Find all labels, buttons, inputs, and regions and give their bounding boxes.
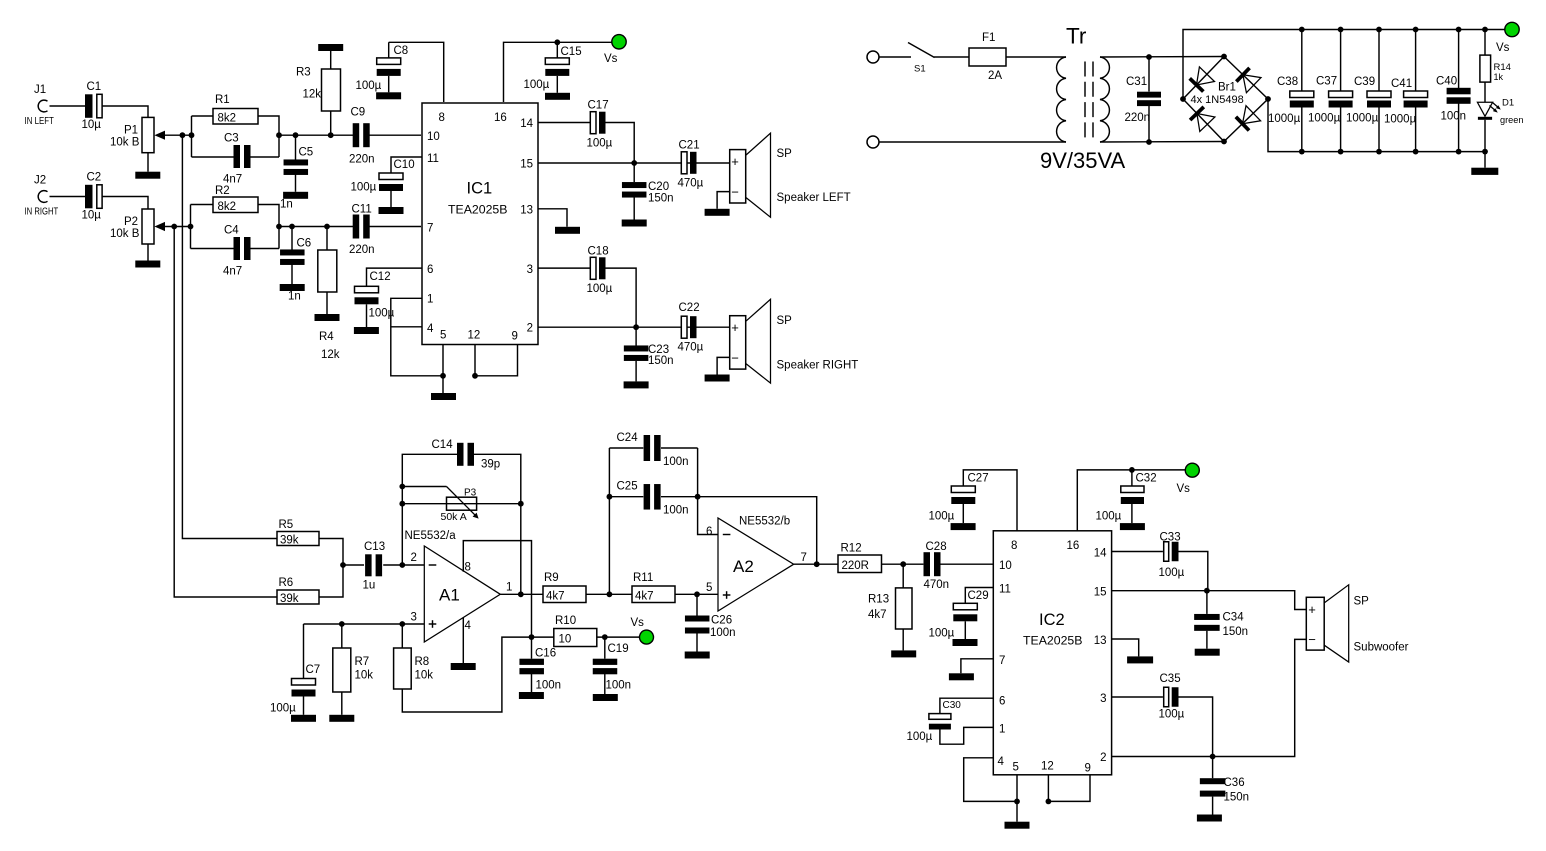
svg-text:6: 6 (706, 526, 712, 538)
ground (pin 13) (1127, 656, 1153, 663)
resistor R14 1k (1480, 55, 1511, 82)
op-amp IC1 TEA2025B (422, 103, 538, 345)
LED D1 green (1477, 98, 1523, 126)
wire (C30 to IC2 pin 1) (940, 727, 993, 744)
svg-text:100n: 100n (663, 456, 689, 468)
ground (IC2) (1005, 822, 1030, 829)
switch S1 (908, 43, 935, 75)
capacitor C24 100n (617, 432, 689, 468)
wire (402, 503, 446, 505)
wire (A1 pin2 to C14) (402, 454, 457, 565)
svg-text:9: 9 (512, 331, 518, 343)
node Vs (supply) (604, 35, 626, 65)
svg-text:100µ: 100µ (356, 80, 382, 92)
wire (A1 pin 8 supply) (463, 541, 531, 638)
connector J1 (input left) (25, 84, 55, 126)
wire (303, 697, 305, 715)
fuse F1 2A (969, 32, 1006, 82)
svg-text:C9: C9 (351, 107, 366, 119)
svg-text:−: − (1308, 632, 1316, 647)
resistor R1 8k2 (213, 94, 258, 124)
wire (secondary top) (1100, 56, 1224, 59)
wire (to R13) (902, 564, 904, 588)
svg-text:R7: R7 (355, 656, 370, 668)
junction (472, 373, 478, 379)
wire (A1 pin 3 bias) (304, 623, 425, 625)
wire (191, 204, 214, 206)
capacitor C4 4n7 (223, 225, 251, 278)
wire (1131, 470, 1133, 486)
svg-text:green: green (1500, 115, 1524, 125)
wire (IC2 pin 11 to C29) (965, 588, 993, 604)
capacitor C31 220n (1125, 76, 1162, 124)
svg-text:220n: 220n (1125, 112, 1151, 124)
wire (IC2 pin 4 to ground rail) (964, 758, 1017, 802)
wire (531, 637, 533, 659)
wire (258, 205, 279, 249)
capacitor C38 1000µ (1268, 76, 1314, 125)
wire (102, 197, 148, 210)
wire (556, 76, 558, 93)
wire (532, 636, 554, 638)
ground (C10) (379, 207, 404, 214)
svg-text:C20: C20 (648, 181, 669, 193)
svg-text:C21: C21 (679, 140, 700, 152)
svg-text:C29: C29 (968, 590, 989, 602)
resistor R12 220R (838, 543, 882, 573)
wire (1148, 57, 1150, 92)
capacitor C40 100n (1436, 76, 1471, 123)
ground (C5) (283, 192, 308, 199)
junction (633, 324, 639, 330)
svg-text:100µ: 100µ (1096, 511, 1122, 523)
junction (328, 132, 334, 138)
wire (291, 264, 293, 284)
svg-text:5: 5 (1013, 762, 1019, 774)
junction (339, 621, 345, 627)
capacitor C25 100n (617, 481, 689, 517)
diode (bridge bottom-left) (1189, 106, 1215, 132)
svg-text:+: + (1308, 602, 1316, 617)
wire (1206, 631, 1208, 649)
svg-text:Vs: Vs (1177, 483, 1191, 495)
ground (C20) (622, 220, 647, 227)
svg-text:10µ: 10µ (82, 210, 102, 222)
svg-text:Subwoofer: Subwoofer (1354, 642, 1409, 654)
junction (554, 39, 560, 45)
junction (900, 561, 906, 567)
svg-text:100n: 100n (536, 680, 562, 692)
resistor R9 4k7 (543, 572, 586, 603)
svg-text:100µ: 100µ (587, 283, 613, 295)
wire (343, 564, 364, 566)
wire (P2 wiper to R6) (174, 227, 277, 598)
junction (607, 494, 613, 500)
capacitor C2 10µ (82, 172, 103, 222)
svg-text:C1: C1 (87, 81, 102, 93)
wire (1206, 591, 1208, 614)
svg-text:15: 15 (520, 159, 533, 171)
junction (1456, 149, 1462, 155)
svg-text:100µ: 100µ (929, 511, 955, 523)
svg-text:7: 7 (999, 655, 1005, 667)
capacitor C9 220n (349, 107, 375, 166)
ground (R4) (315, 314, 340, 321)
wire (165, 226, 191, 228)
junction (602, 634, 608, 640)
svg-text:C36: C36 (1224, 777, 1245, 789)
svg-text:15: 15 (1094, 587, 1107, 599)
svg-text:4n7: 4n7 (223, 266, 242, 278)
svg-text:R9: R9 (544, 572, 559, 584)
wire (R8 to supply node) (402, 637, 531, 712)
svg-text:10: 10 (559, 633, 572, 645)
svg-text:IN LEFT: IN LEFT (25, 115, 55, 126)
svg-text:100µ: 100µ (587, 138, 613, 150)
wire (speaker left -) (717, 192, 730, 209)
wire (to IC1 pin 10) (370, 134, 422, 136)
svg-text:SP: SP (777, 148, 793, 160)
wire (295, 174, 297, 192)
svg-text:Vs: Vs (631, 617, 645, 629)
svg-text:R12: R12 (841, 543, 862, 555)
svg-text:16: 16 (1067, 540, 1080, 552)
junction (1376, 149, 1382, 155)
svg-text:150n: 150n (648, 193, 674, 205)
capacitor C10 100µ (351, 159, 415, 194)
wire (633, 198, 635, 220)
wire (50, 105, 86, 107)
ground (C8) (376, 92, 401, 99)
junction (694, 591, 700, 597)
svg-text:R8: R8 (415, 656, 430, 668)
wire (635, 361, 637, 381)
ground (C6) (280, 284, 305, 291)
wire (326, 292, 328, 314)
wire (Vs to IC1 pin 8) (389, 42, 444, 102)
svg-text:10: 10 (999, 560, 1012, 572)
wire (A2 feedback) (698, 497, 817, 565)
junction (1265, 96, 1271, 102)
wire (604, 674, 606, 694)
resistor R13 4k7 (868, 588, 912, 629)
svg-text:IN RIGHT: IN RIGHT (25, 206, 59, 217)
svg-text:R11: R11 (633, 572, 653, 584)
wire (IC1 pin 13) (538, 209, 567, 227)
wire (879, 56, 911, 58)
svg-text:SP: SP (1354, 596, 1370, 608)
svg-text:10k B: 10k B (110, 228, 140, 240)
svg-text:C41: C41 (1391, 78, 1412, 90)
resistor R4 12k (318, 250, 340, 361)
wire (1378, 108, 1380, 152)
junction (607, 591, 613, 597)
resistor R11 4k7 (632, 572, 675, 603)
node Vs (supply output) (1496, 22, 1519, 54)
svg-text:C15: C15 (561, 46, 582, 58)
svg-text:100n: 100n (710, 627, 736, 639)
wire (C14 to A1 output) (473, 454, 520, 594)
wire (604, 637, 606, 659)
wire (secondary bottom) (1100, 141, 1224, 144)
junction (293, 132, 299, 138)
capacitor C41 1000µ (1384, 78, 1428, 126)
wire (1301, 108, 1303, 152)
wire (R5/R6 join) (319, 539, 343, 598)
capacitor C13 1u (363, 541, 386, 592)
svg-text:J2: J2 (34, 175, 46, 187)
wire (1340, 30, 1342, 92)
wire (147, 244, 149, 261)
svg-text:R13: R13 (868, 594, 889, 606)
svg-text:C13: C13 (364, 541, 385, 553)
svg-text:C32: C32 (1136, 473, 1157, 485)
capacitor C5 1n (280, 147, 313, 211)
junction (276, 224, 282, 230)
svg-text:100n: 100n (1441, 111, 1467, 123)
svg-text:NE5532/a: NE5532/a (405, 530, 457, 542)
svg-text:C22: C22 (679, 302, 700, 314)
svg-text:+: + (731, 154, 739, 169)
svg-text:NE5532/b: NE5532/b (739, 516, 790, 528)
wire (326, 227, 328, 251)
svg-text:C24: C24 (617, 432, 639, 444)
junction (814, 561, 820, 567)
wire (1148, 105, 1150, 142)
wire (bridge edge) (1224, 57, 1268, 100)
svg-text:1000µ: 1000µ (1268, 113, 1301, 125)
svg-text:1: 1 (999, 724, 1005, 736)
junction (518, 501, 524, 507)
svg-text:39p: 39p (481, 459, 500, 471)
svg-text:1n: 1n (280, 199, 293, 211)
wire (IC2 pin 3) (1112, 696, 1163, 698)
ground (C36) (1197, 815, 1222, 822)
wire (1458, 30, 1460, 89)
svg-text:4x 1N5498: 4x 1N5498 (1191, 94, 1244, 106)
junction (1482, 149, 1488, 155)
wire (IC2 pin 5) (1016, 775, 1018, 802)
wire (C13 to A1 pin 2) (383, 564, 424, 566)
svg-text:100n: 100n (663, 505, 689, 517)
wire (1378, 30, 1380, 92)
wire (165, 134, 192, 136)
svg-text:2: 2 (411, 552, 417, 564)
wire (605, 268, 636, 327)
svg-text:C6: C6 (297, 238, 312, 250)
wire (to C26) (696, 594, 698, 615)
wire (IC2 pin 7) (961, 659, 993, 674)
wire (341, 624, 343, 648)
svg-text:TEA2025B: TEA2025B (1023, 634, 1082, 648)
wire (477, 503, 521, 505)
junction (1413, 27, 1419, 33)
junction (1210, 754, 1216, 760)
resistor R6 39k (277, 577, 319, 605)
svg-text:4n7: 4n7 (223, 174, 242, 186)
wire (390, 191, 392, 207)
wire (A1 pin 4) (462, 617, 464, 663)
wire (192, 115, 214, 117)
svg-text:C37: C37 (1316, 76, 1337, 88)
wire (388, 42, 390, 58)
wire (366, 304, 368, 327)
wire (661, 496, 698, 498)
capacitor C20 150n (622, 181, 674, 205)
svg-text:8: 8 (465, 562, 471, 574)
junction (1180, 96, 1186, 102)
capacitor C32 100µ (1096, 473, 1157, 523)
wire (147, 153, 149, 172)
svg-text:S1: S1 (914, 64, 926, 75)
wire (IC1 pin 14) (538, 122, 590, 124)
svg-text:50k A: 50k A (441, 511, 467, 523)
svg-text:1000µ: 1000µ (1308, 113, 1341, 125)
svg-text:8k2: 8k2 (218, 201, 237, 213)
ground (C15) (545, 93, 570, 100)
svg-text:R2: R2 (215, 185, 230, 197)
terminal (mains L) (867, 51, 879, 63)
junction (171, 224, 177, 230)
svg-text:1n: 1n (288, 291, 301, 303)
diode (bridge top-right) (1235, 67, 1261, 93)
trimmer P3 50k (441, 487, 479, 523)
junction (1221, 139, 1227, 145)
svg-text:C27: C27 (968, 473, 989, 485)
svg-text:4k7: 4k7 (868, 609, 887, 621)
svg-text:2A: 2A (988, 70, 1002, 82)
wire (1301, 30, 1303, 92)
capacitor C3 4n7 (223, 133, 251, 186)
wire (442, 376, 444, 393)
junction (188, 224, 194, 230)
capacitor C6 1n (280, 238, 311, 303)
junction (1146, 139, 1152, 145)
svg-text:100µ: 100µ (524, 79, 550, 91)
capacitor C23 150n (624, 344, 674, 367)
svg-text:C19: C19 (608, 643, 629, 655)
ground (C7) (291, 715, 316, 722)
svg-text:R1: R1 (215, 94, 230, 106)
svg-text:10k B: 10k B (110, 137, 140, 149)
wire (661, 447, 698, 449)
svg-text:13: 13 (520, 205, 533, 217)
wire (1177, 552, 1207, 591)
svg-text:C30: C30 (943, 700, 962, 711)
capacitor C7 100µ (270, 664, 320, 715)
potentiometer P1 10k (110, 117, 165, 152)
junction (1146, 54, 1152, 60)
ground (speaker right) (705, 375, 730, 382)
wire (IC2 pin 9) (1048, 775, 1090, 802)
svg-text:Vs: Vs (1496, 42, 1510, 54)
svg-text:4k7: 4k7 (635, 590, 654, 602)
wire (IC1 pin 12) (474, 345, 476, 376)
svg-text:470µ: 470µ (678, 342, 704, 354)
capacitor C12 100µ (355, 271, 395, 320)
wire (IC1 pin1/pin4 to ground rail) (391, 298, 443, 376)
wire (388, 76, 390, 92)
capacitor C36 150n (1200, 777, 1249, 804)
wire (964, 621, 966, 639)
svg-text:R3: R3 (296, 67, 311, 79)
wire (696, 631, 698, 652)
capacitor C30 100µ (907, 700, 962, 743)
wire (190, 205, 192, 249)
wire (1212, 757, 1214, 779)
ground (C16) (519, 692, 544, 699)
svg-text:F1: F1 (982, 32, 995, 44)
wire (1006, 56, 1066, 58)
junction (1204, 588, 1210, 594)
resistor R8 10k (394, 648, 434, 689)
svg-text:C4: C4 (224, 225, 239, 237)
ground (C32) (1120, 523, 1145, 530)
ground (C23) (624, 381, 649, 388)
wire (1484, 30, 1486, 56)
wire (A1 output) (500, 593, 543, 595)
junction (1221, 54, 1227, 60)
svg-text:100µ: 100µ (1159, 709, 1185, 721)
svg-text:1: 1 (506, 582, 512, 594)
wire (902, 629, 904, 650)
wire (IC1 pin 2 to speaker) (538, 326, 730, 328)
wire (IC2 pin 6 to C30) (940, 698, 993, 713)
svg-text:10k: 10k (415, 670, 434, 682)
wire (bridge edge) (1224, 99, 1268, 142)
svg-text:100µ: 100µ (351, 182, 377, 194)
junction (399, 621, 405, 627)
capacitor C19 100n (593, 643, 631, 692)
svg-text:C28: C28 (926, 541, 947, 553)
svg-text:1: 1 (427, 294, 433, 306)
svg-text:100µ: 100µ (907, 731, 933, 743)
svg-text:C5: C5 (299, 147, 314, 159)
svg-text:7: 7 (427, 223, 433, 235)
wire (0V rail) (1268, 99, 1485, 152)
wire (1016, 801, 1018, 821)
svg-text:A2: A2 (733, 557, 754, 576)
wire (to C7) (303, 624, 305, 679)
svg-text:9: 9 (1085, 763, 1091, 775)
svg-text:470µ: 470µ (678, 178, 704, 190)
junction (1046, 799, 1052, 805)
ground (pin 13) (555, 227, 580, 234)
svg-text:7: 7 (801, 552, 807, 564)
svg-text:C38: C38 (1277, 76, 1298, 88)
ground (pin 7) (949, 673, 974, 680)
svg-text:12: 12 (1041, 761, 1054, 773)
wire (586, 593, 632, 595)
svg-text:100µ: 100µ (1159, 567, 1185, 579)
resistor R7 10k (333, 648, 373, 692)
capacitor C14 39p (432, 439, 501, 471)
diode (bridge bottom-right) (1235, 106, 1261, 132)
svg-text:14: 14 (1094, 548, 1107, 560)
svg-text:1000µ: 1000µ (1346, 113, 1379, 125)
capacitor C35 100µ (1159, 673, 1185, 721)
wire (633, 163, 635, 182)
svg-text:150n: 150n (648, 355, 674, 367)
op-amp A1 NE5532/a (405, 530, 501, 642)
bridge label Br1 (1191, 82, 1244, 107)
svg-text:−: − (731, 185, 739, 200)
wire (250, 156, 279, 158)
junction (399, 501, 405, 507)
wire (191, 116, 193, 157)
wire (mains bottom) (879, 141, 1066, 143)
capacitor C21 470µ (678, 140, 704, 190)
